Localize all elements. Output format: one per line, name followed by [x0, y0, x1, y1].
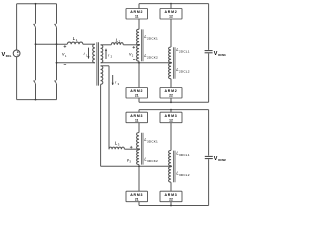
svg-text:ARM3: ARM3 — [164, 193, 177, 197]
label plus v2 — [133, 46, 136, 48]
svg-text:3: 3 — [129, 160, 131, 164]
arm module ARM3-12 — [160, 112, 182, 123]
svg-text:2DCK2: 2DCK2 — [147, 55, 158, 59]
wire - v3 negative return — [139, 165, 171, 167]
svg-text:ARM2: ARM2 — [164, 10, 177, 14]
svg-text:ARM3: ARM3 — [130, 193, 143, 197]
junction - group3 left leg return cross — [138, 165, 140, 167]
wire - group3 top bus — [139, 109, 209, 111]
wire - arm31 drop — [138, 202, 140, 206]
svg-text:3: 3 — [118, 82, 120, 86]
junction - group2 top bus right arm — [170, 3, 172, 5]
svg-text:22: 22 — [169, 197, 173, 201]
inductor L3 — [109, 147, 124, 149]
transformer T1 secondary winding — [101, 45, 103, 63]
wire - left leg lower — [138, 61, 140, 87]
wire - group3 right vertical upper — [208, 110, 210, 156]
wire - arm32 riser — [170, 110, 172, 113]
svg-text:22: 22 — [169, 94, 173, 98]
junction - group3 left leg midpoint (v3+) — [138, 148, 140, 150]
voltage source VDCL — [13, 50, 20, 57]
svg-text:11: 11 — [135, 118, 139, 122]
coupled core group3 right leg — [172, 151, 174, 183]
wire - v1 negative line — [57, 62, 95, 64]
current arrow i3 — [112, 75, 114, 85]
arm module ARM3-22 — [160, 191, 182, 202]
wire - arm22 riser — [170, 4, 172, 9]
svg-text:V: V — [214, 156, 218, 162]
arm module ARM3-21 — [126, 191, 148, 202]
wire - arm32 drop — [170, 202, 172, 206]
svg-text:i: i — [108, 52, 109, 57]
wire - group2 top bus — [139, 3, 209, 5]
transformer T1 tertiary winding — [101, 66, 103, 84]
switch S3 — [55, 24, 57, 27]
transformer T1 primary winding — [93, 44, 95, 63]
wire - arm31 riser — [138, 110, 140, 113]
junction - left leg midpoint (v2+) — [138, 44, 140, 46]
wire - group2 right vertical upper — [208, 4, 210, 50]
svg-text:ARM2: ARM2 — [130, 10, 143, 14]
wire - group3 left leg lower — [138, 165, 140, 192]
current arrow i1 — [88, 48, 90, 59]
junction - group3 bottom bus right arm — [170, 205, 172, 207]
svg-text:2DCL2: 2DCL2 — [179, 69, 190, 73]
wire - v1 positive line — [36, 43, 68, 45]
coupled core group3 left leg — [140, 133, 142, 165]
inductor L2DCK1 — [137, 29, 139, 45]
svg-text:3: 3 — [118, 143, 120, 147]
switch S2 leg (lower left) — [35, 44, 37, 80]
junction - bridge top mid — [35, 3, 37, 5]
wire - L2 to left leg — [123, 44, 139, 46]
switch S3 leg (upper right) — [56, 4, 58, 24]
label plus v1 — [64, 45, 67, 47]
wire - arm22 drop — [170, 98, 172, 102]
switch S1 leg (upper left) — [35, 4, 37, 24]
inductor L3DCL1 — [169, 150, 171, 165]
svg-text:1: 1 — [76, 38, 78, 42]
svg-text:3DCK1: 3DCK1 — [147, 139, 158, 143]
inductor L2DCL2 — [169, 63, 171, 79]
wire - secondary top to L2 — [101, 44, 112, 46]
junction - group3 right leg midpoint — [170, 165, 172, 167]
switch S2 — [34, 81, 36, 84]
inductor L2DCK2 — [137, 45, 139, 61]
svg-text:ARM3: ARM3 — [130, 114, 143, 118]
junction - group2 bottom bus right arm — [170, 101, 172, 103]
svg-text:12: 12 — [169, 118, 173, 122]
arm module ARM2-22 — [160, 88, 182, 99]
wire - arm21 riser — [138, 4, 140, 9]
junction - leg2 midpoint — [56, 62, 58, 64]
wire - tertiary top drop — [101, 65, 109, 67]
junction - leg1 midpoint — [35, 43, 37, 45]
svg-text:DCL: DCL — [6, 54, 12, 58]
arm module ARM2-12 — [160, 9, 182, 20]
wire - secondary bottom return — [101, 62, 171, 64]
transformer T1 core — [96, 42, 98, 85]
svg-text:ARM2: ARM2 — [130, 89, 143, 93]
svg-text:12: 12 — [169, 15, 173, 19]
wire - L3 to left leg — [125, 148, 140, 150]
junction - group3 top bus right arm — [170, 109, 172, 111]
wire - L1 to transformer primary — [83, 43, 95, 45]
wire - arm21 drop — [138, 98, 140, 102]
switch S4 — [55, 81, 57, 84]
inductor L1 — [67, 42, 83, 44]
svg-text:ARM2: ARM2 — [164, 89, 177, 93]
switch S1 — [34, 24, 36, 27]
arm module ARM2-21 — [126, 88, 148, 99]
wire - tertiary bottom drop — [100, 84, 102, 166]
svg-text:2: 2 — [111, 55, 113, 59]
wire - group3 bottom bus — [139, 205, 209, 207]
svg-text:21: 21 — [135, 197, 139, 201]
svg-text:3DCL1: 3DCL1 — [179, 153, 190, 157]
svg-text:DCM2: DCM2 — [218, 158, 226, 162]
svg-text:ARM3: ARM3 — [164, 114, 177, 118]
coupled core right leg — [172, 47, 174, 79]
wire - arm31 to inductor — [138, 123, 140, 133]
wire - input bridge top bus — [17, 3, 57, 5]
inductor L3DCK2 — [137, 150, 139, 165]
label minus v1 — [64, 64, 66, 66]
svg-text:21: 21 — [135, 94, 139, 98]
inductor L3DCL2 — [169, 167, 171, 183]
label minus v2 — [133, 58, 135, 60]
svg-text:DCM1: DCM1 — [218, 53, 226, 57]
wire - arm12 to inductor — [170, 19, 172, 47]
junction - left leg return cross — [138, 62, 140, 64]
arm module ARM3-11 — [126, 112, 148, 123]
inductor L3DCK1 — [137, 133, 139, 150]
voltage source VDCL branch top wire — [16, 4, 18, 51]
current arrow i2 — [105, 49, 107, 59]
svg-text:V: V — [214, 51, 218, 57]
inductor L2DCL1 — [169, 47, 171, 62]
svg-text:1: 1 — [65, 54, 67, 58]
svg-text:11: 11 — [135, 15, 139, 19]
inductor L2 — [111, 43, 123, 45]
junction - leg2 crossing — [56, 43, 58, 45]
wire - right leg lower — [170, 79, 172, 88]
svg-text:i: i — [84, 51, 85, 56]
label plus v3 — [130, 146, 133, 148]
wire - group2 right vertical lower — [208, 53, 210, 102]
wire - group3 right leg lower — [170, 182, 172, 191]
wire - input bridge bottom bus — [17, 99, 57, 101]
switch S4 leg (lower right) — [56, 44, 58, 80]
junction - bridge bottom mid — [35, 99, 37, 101]
svg-text:i: i — [115, 80, 116, 85]
arm module ARM2-11 — [126, 9, 148, 20]
voltage source VDCL branch bottom wire — [16, 57, 18, 100]
junction - right leg midpoint — [170, 62, 172, 64]
wire - group2 bottom bus — [139, 101, 209, 103]
svg-text:2: 2 — [132, 54, 134, 58]
coupled core left leg — [140, 29, 142, 61]
wire - group3 right vertical lower — [208, 159, 210, 205]
svg-text:3DCK2: 3DCK2 — [147, 159, 158, 163]
wire - arm32 to inductor — [170, 123, 172, 151]
wire - arm11 to inductor — [138, 19, 140, 29]
svg-text:2DCK1: 2DCK1 — [147, 36, 158, 40]
capacitor C1 — [205, 50, 213, 52]
svg-text:2DCL1: 2DCL1 — [179, 49, 190, 53]
svg-text:3DCL2: 3DCL2 — [179, 173, 190, 177]
capacitor C2 — [205, 155, 213, 157]
